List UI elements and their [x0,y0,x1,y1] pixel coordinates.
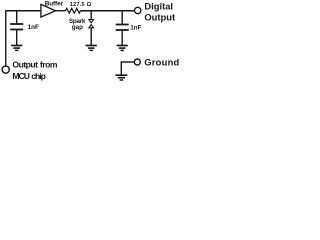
svg-text:127.5 Ω: 127.5 Ω [70,2,92,8]
ground under C2 [117,46,128,51]
ground under C1 [11,46,22,51]
svg-text:1nF: 1nF [130,24,141,31]
capacitor C1 [10,24,23,30]
svg-text:Digital: Digital [144,0,173,11]
spark gap electrode upper (down triangle) [89,20,94,23]
wire top rail right segment [81,10,135,12]
legend ground bars [115,75,127,80]
capacitor C2 top lead [121,11,123,24]
legend ground symbol horizontal wire [121,61,134,63]
wire buffer output [56,10,66,12]
svg-text:Output: Output [144,12,175,23]
terminal circle digital output [135,7,141,13]
svg-text:Output from: Output from [12,60,57,70]
ground under spark gap [86,46,97,51]
capacitor C1 bottom lead [16,30,18,45]
svg-text:gap: gap [72,24,83,31]
capacitor C2 bottom lead [121,31,123,45]
terminal circle MCU output [2,66,9,73]
legend ground symbol vertical [120,61,122,74]
resistor R1 [66,8,81,13]
spark gap electrode lower (up triangle) [89,25,94,28]
capacitor C1 top lead [16,11,18,23]
capacitor C2 [116,25,129,31]
svg-text:Ground: Ground [144,57,179,68]
buffer U1 [41,4,56,17]
wire left vertical [5,10,7,66]
wire spark gap bottom lead [90,28,92,45]
svg-text:MCU chip: MCU chip [12,71,45,81]
svg-text:1nF: 1nF [28,24,39,31]
legend terminal circle [134,59,140,65]
wire spark gap top lead [90,11,92,20]
svg-text:Buffer: Buffer [45,1,64,8]
wire top rail left segment [6,10,41,12]
